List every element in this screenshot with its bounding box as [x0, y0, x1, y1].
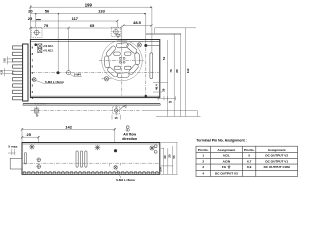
- extension line x=35.8: [35, 14, 37, 28]
- svg-text:DC OUTPUT V3: DC OUTPUT V3: [215, 171, 238, 175]
- svg-text:AC/N: AC/N: [223, 159, 231, 163]
- svg-text:78: 78: [169, 69, 173, 73]
- fan vertical centerline: [121, 42, 123, 96]
- front screws right: [154, 145, 157, 153]
- svg-text:133: 133: [98, 9, 105, 14]
- svg-text:15: 15: [169, 100, 173, 104]
- front vent asterisk left: [29, 144, 35, 150]
- svg-text:Assignment: Assignment: [268, 148, 286, 152]
- dimension 79/65/48.5 line: [29, 24, 152, 29]
- slot reference lines: [153, 82, 168, 92]
- svg-text:25: 25: [26, 132, 31, 137]
- dimension 199 line: [29, 6, 152, 8]
- svg-text:65: 65: [90, 23, 95, 28]
- svg-text:+V1 ADJ.: +V1 ADJ.: [43, 50, 54, 53]
- top connector lines: [146, 28, 196, 35]
- bottom louvre row: [23, 171, 158, 174]
- svg-text:20: 20: [167, 154, 171, 158]
- 5-M3 hole on left rail (hatched circle): [32, 78, 36, 82]
- svg-text:4: 4: [202, 171, 204, 175]
- pin pitch dimension 6.35: [1, 68, 14, 76]
- svg-text:48.5: 48.5: [133, 20, 142, 25]
- mounting hole detail top-middle (dotted square with circle): [111, 27, 121, 36]
- svg-text:5.08: 5.08: [161, 167, 163, 172]
- table row 4: [202, 171, 238, 175]
- potentiometer V2 ADJ: [38, 44, 54, 48]
- svg-text:6,7: 6,7: [247, 159, 252, 163]
- extension line left column: [29, 5, 31, 40]
- extension line x=121.8 fan centre: [121, 26, 123, 42]
- svg-text:112: 112: [186, 68, 190, 73]
- extension to dim column: [142, 110, 198, 112]
- table header row: [198, 148, 286, 152]
- svg-text:DC OUTPUT V2: DC OUTPUT V2: [265, 154, 288, 158]
- centerline through M4 holes: [32, 72, 159, 74]
- front centerline: [23, 162, 159, 164]
- svg-text:7.62: 7.62: [4, 58, 6, 63]
- right clinch nut: [113, 106, 120, 116]
- dim vertical 112: [185, 28, 187, 117]
- table grid: [196, 146, 298, 176]
- svg-text:FG: FG: [222, 165, 227, 169]
- fan hub circles: [119, 57, 125, 63]
- svg-text:direction: direction: [122, 137, 137, 141]
- svg-text:+V2 ADJ.: +V2 ADJ.: [43, 45, 54, 48]
- front vent slots middle: [76, 151, 87, 167]
- dimension 25 line: [21, 136, 40, 143]
- svg-text:5 max.: 5 max.: [8, 145, 18, 149]
- extension line x=58.4: [57, 14, 59, 71]
- terminal block body: [23, 44, 28, 101]
- terminal cover protrusion: [10, 158, 22, 169]
- potentiometer marker dot: [34, 43, 37, 46]
- svg-text:199: 199: [85, 2, 93, 7]
- table row 2: [202, 159, 288, 163]
- table row 1: [202, 154, 288, 158]
- strip end caps: [23, 104, 160, 106]
- svg-text:8,9: 8,9: [247, 165, 252, 169]
- 5-M3 L=6mm label: [36, 80, 64, 84]
- vent slot near right edge: [150, 53, 153, 79]
- svg-text:56: 56: [45, 9, 50, 14]
- svg-text:88: 88: [175, 69, 179, 73]
- top view chassis outline: [30, 40, 159, 98]
- svg-text:5: 5: [248, 154, 250, 158]
- dim vertical 78: [173, 34, 175, 117]
- front vent asterisk right: [149, 145, 155, 151]
- svg-text:28: 28: [163, 155, 167, 159]
- fan guard circle: [102, 40, 143, 81]
- extension line x=70: [68, 28, 70, 71]
- dim vertical 51: [167, 40, 169, 117]
- screw dot top-right: [144, 44, 147, 47]
- potentiometer V1 ADJ: [38, 49, 54, 53]
- svg-text:Assignment: Assignment: [218, 148, 236, 152]
- small ticks near mid-right: [110, 163, 121, 166]
- strip top line: [23, 103, 160, 105]
- svg-text:117: 117: [72, 16, 79, 21]
- 2-M4 hole filled: [57, 71, 60, 74]
- svg-text:6.35: 6.35: [1, 69, 3, 74]
- svg-text:Terminal Pin No. Assignment :: Terminal Pin No. Assignment :: [196, 138, 246, 142]
- svg-text:38: 38: [161, 88, 165, 92]
- front screw circle on centerline: [114, 166, 117, 169]
- svg-text:15: 15: [114, 116, 118, 120]
- svg-text:50: 50: [172, 155, 176, 159]
- small flag symbol right of nut: [120, 105, 126, 110]
- svg-text:142: 142: [65, 124, 72, 129]
- left clinch nut: [34, 106, 39, 117]
- dimension 25/117 line: [30, 20, 118, 23]
- extension line x=153.7: [151, 7, 153, 52]
- fan inner slots: [114, 52, 131, 70]
- svg-text:Pin No.: Pin No.: [198, 148, 209, 152]
- svg-text:79: 79: [44, 23, 49, 28]
- 6-M4 L=6mm label: [116, 170, 135, 183]
- 15 dim under right nut: [112, 115, 120, 120]
- strip bottom line: [23, 104, 160, 106]
- dim vertical 88: [180, 34, 182, 117]
- mounting hole detail top-left (dotted square with circle): [32, 28, 43, 38]
- svg-text:DC OUTPUT COM: DC OUTPUT COM: [264, 165, 291, 169]
- svg-text:AC/L: AC/L: [223, 154, 230, 158]
- extension line x=146.6: [145, 14, 147, 44]
- svg-text:2-M4: 2-M4: [74, 73, 81, 77]
- svg-text:3: 3: [202, 165, 204, 169]
- terminal pins: [13, 46, 23, 100]
- svg-text:1: 1: [202, 154, 204, 158]
- svg-text:Pin No.: Pin No.: [244, 148, 255, 152]
- fan screw top-right (hatched circle): [137, 43, 141, 47]
- svg-text:5-M3 L=6mm: 5-M3 L=6mm: [45, 80, 64, 84]
- svg-text:2: 2: [202, 159, 204, 163]
- svg-text:DC OUTPUT V1: DC OUTPUT V1: [265, 159, 288, 163]
- terminal pin numbers: [32, 46, 34, 101]
- fan outer slot ring: [104, 43, 140, 78]
- svg-text:20: 20: [28, 9, 33, 14]
- finish mark triangle on top edge: [116, 34, 120, 37]
- svg-text:46.4: 46.4: [155, 84, 159, 90]
- fan horizontal centerline: [99, 60, 145, 62]
- extension line x=117.3: [116, 20, 118, 27]
- 2-M4 hole open: [66, 71, 70, 75]
- front vent asterisk middle: [95, 145, 101, 151]
- front view chassis: [22, 143, 160, 175]
- bottom connector: [156, 116, 201, 118]
- right vertical centerline with bottom dot: [145, 48, 148, 98]
- right inner line: [147, 44, 160, 46]
- 5 max dim bracket: [8, 149, 16, 155]
- front screws left: [36, 157, 41, 169]
- 2-M4 label: [70, 73, 82, 77]
- svg-text:Air flow: Air flow: [123, 132, 136, 136]
- strip centerline: [31, 110, 141, 112]
- table row 3: [202, 165, 290, 169]
- front vent slot left: [24, 153, 26, 165]
- fan screw bottom-left (hatched circle): [102, 77, 112, 81]
- dimension 20/56/133 line: [30, 13, 145, 14]
- svg-text:6-M4 L=6mm: 6-M4 L=6mm: [116, 178, 135, 182]
- dimension 142 line: [21, 128, 116, 143]
- svg-text:51: 51: [162, 57, 166, 61]
- air flow symbol: [126, 126, 129, 131]
- louvre dots on strip: [35, 103, 46, 104]
- pin pitch dimension 7.62: [4, 57, 14, 65]
- front screw dot mid-right: [114, 149, 117, 152]
- strip right-end dim with ticks: [157, 96, 176, 104]
